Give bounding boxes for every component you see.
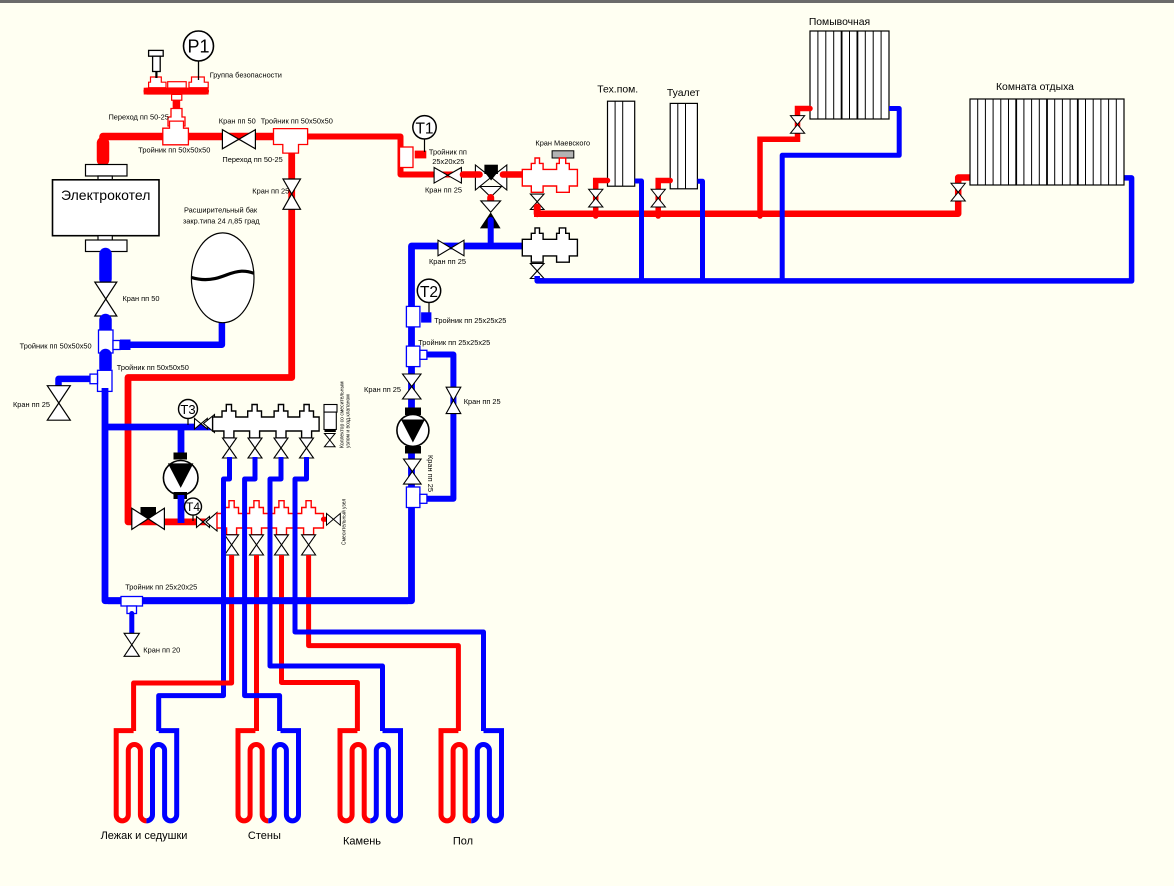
supply collector (red manifold) (217, 501, 323, 535)
svg-text:Кран пп 25: Кран пп 25 (429, 257, 466, 266)
valve on Туалет feed (651, 189, 665, 207)
svg-text:Кран пп 50: Кран пп 50 (219, 117, 256, 126)
svg-text:P1: P1 (187, 37, 209, 57)
wire: blue stub to drain valve Кран пп 20 (129, 614, 134, 638)
svg-text:Тройник пп 50х50х50: Тройник пп 50х50х50 (138, 146, 210, 155)
wire: red stub below three-way valve (487, 198, 494, 207)
safety relief valve symbol top (149, 50, 164, 78)
collector outlet valve 2 (248, 438, 262, 458)
svg-text:Пол: Пол (453, 836, 473, 848)
svg-text:Расширительный бак: Расширительный бак (184, 206, 258, 215)
wire: blue floor loop return 4 (295, 457, 484, 731)
wire: blue return Тех.пом. (635, 181, 642, 281)
valve Кран пп 25 (before pump) (403, 374, 422, 399)
wire: blue return main overlay (bottom run) (108, 597, 408, 604)
safety group bottom collar (172, 94, 182, 100)
supply collector outlet valve 2 (250, 535, 264, 555)
collector outlet valve 4 (300, 438, 314, 458)
wire: red stub from valve to main (534, 207, 541, 214)
wire: red feed Туалет (658, 181, 670, 217)
valve on Помывочная feed (790, 116, 804, 134)
wire: red stub left of three-way valve (463, 171, 480, 178)
floor loop 1 supply coil (Лежак и седушки) (116, 731, 146, 821)
svg-text:Т1: Т1 (415, 121, 433, 138)
radiator Тех.пом. (608, 101, 635, 186)
wire: blue floor loop return 2 (245, 457, 280, 731)
svg-text:Т2: Т2 (420, 284, 438, 301)
svg-text:Т4: Т4 (186, 500, 200, 514)
wire: blue branch to drain valve (59, 379, 97, 392)
tee Тройник пп 50х50х50 (left branch) (90, 370, 112, 391)
wire: blue feed to floor-collector (105, 424, 212, 431)
svg-text:Тройник пп: Тройник пп (429, 148, 467, 157)
safety group manifold bar (144, 88, 209, 95)
floor loop 2 return coil (268, 731, 298, 821)
circulation pump (floor circuit) (163, 453, 198, 500)
wire: blue stub below check valve (488, 220, 494, 245)
floor loop 4 return coil (471, 731, 501, 821)
wire: blue floor loop return 1 (159, 457, 230, 731)
svg-text:25х20х25: 25х20х25 (432, 157, 464, 166)
floor loop 2 supply coil (Стены) (238, 731, 268, 821)
valve below return assembly (530, 264, 544, 279)
air vent assembly Кран Маевского (supply) (522, 151, 577, 193)
radiator Помывочная (810, 31, 889, 119)
supply collector outlet valve 3 (275, 535, 289, 555)
valve Кран пп 25 (on red riser) (283, 179, 301, 209)
supply collector outlet valve 1 (225, 535, 239, 555)
svg-text:Тройник пп 50х50х50: Тройник пп 50х50х50 (20, 342, 92, 351)
collector outlet valve 3 (274, 438, 288, 458)
svg-text:Туалет: Туалет (667, 88, 700, 99)
wire: blue return Туалет (697, 181, 702, 281)
wire: red main tee to T1 elbow (25mm) (288, 137, 470, 175)
svg-text:Комната отдыха: Комната отдыха (996, 82, 1074, 93)
tee Тройник пп 25х25х25 (second) (406, 346, 427, 367)
safety group middle fitting bump (168, 82, 187, 88)
valve below supply assembly (530, 194, 544, 209)
svg-text:Кран Маевского: Кран Маевского (535, 139, 590, 148)
electric boiler Электрокотел (53, 180, 160, 236)
floor loop 3 return coil (370, 731, 400, 821)
circulation pump (radiator circuit) (397, 408, 429, 454)
valve on Комната отдыха feed (951, 183, 965, 201)
wire: blue pump outlet to mixing point (178, 495, 185, 523)
valve Кран пп 25 (radiator supply) (434, 168, 461, 184)
svg-text:Тройник пп 25х25х25: Тройник пп 25х25х25 (434, 316, 506, 325)
wire: blue return capsule below boiler (99, 254, 112, 279)
tee (bypass bottom) (406, 487, 427, 508)
return assembly (black) (522, 228, 577, 262)
wire: blue return Помывочная (782, 109, 899, 281)
svg-text:закр.типа 24 л,85 град: закр.типа 24 л,85 град (183, 217, 260, 226)
wire: red riser down from tee through mixing circuit (128, 150, 292, 522)
wire: red stub safety-group to tee (173, 92, 181, 132)
return collector (black manifold) (213, 405, 320, 439)
svg-text:узлом и возд.клапаном: узлом и возд.клапаном (346, 394, 352, 448)
valve Кран пп 50 (top main) (222, 130, 255, 149)
tee Тройник пп 50х50х50 (under safety group) (163, 121, 189, 145)
thermometer T4 (185, 498, 202, 521)
boiler top flange (86, 165, 128, 181)
thermometer T1 (413, 116, 436, 152)
thermometer T2 (417, 279, 440, 313)
wire: blue capsule between tees (99, 355, 112, 368)
wire: red stub right of three-way valve (503, 171, 523, 178)
wire: red floor loop feed 2 (254, 555, 259, 731)
three-way valve servo head (484, 165, 498, 181)
wire: blue bypass branch (419, 355, 453, 499)
safety group air-vent bump (right) (189, 77, 208, 88)
svg-text:Переход пп 50-25: Переход пп 50-25 (222, 155, 282, 164)
svg-text:Камень: Камень (343, 836, 381, 848)
tee Тройник пп 25х20х25 (at T1) (400, 147, 427, 168)
svg-text:Тройник пп 25х20х25: Тройник пп 25х20х25 (125, 583, 197, 592)
check valve (bypass) (480, 201, 501, 229)
svg-text:Кран пп 25: Кран пп 25 (426, 455, 435, 492)
valve at collector inlet (195, 415, 215, 433)
svg-text:Кран пп 25: Кран пп 25 (425, 186, 462, 195)
valve Кран пп 25 (return main) (438, 240, 464, 256)
svg-text:Тройник пп 50х50х50: Тройник пп 50х50х50 (117, 363, 189, 372)
svg-text:Стены: Стены (248, 830, 281, 842)
wire: red supply capsule above boiler (97, 143, 110, 160)
svg-text:Электрокотел: Электрокотел (61, 187, 150, 203)
svg-text:Кран пп 25: Кран пп 25 (13, 400, 50, 409)
tee Тройник пп 50х50х50 (to tank) (99, 330, 131, 353)
tee Тройник пп 25х20х25 (bottom left) (121, 597, 143, 614)
svg-text:Смесительный узел: Смесительный узел (341, 499, 348, 545)
wire: red floor loop feed 4 (309, 555, 459, 731)
wire: blue drop to pump (178, 427, 185, 456)
supply collector end valve (323, 514, 340, 526)
three-way mixing valve (132, 507, 165, 529)
three-way valve with servo (radiator circuit) (475, 165, 506, 197)
valve Кран пп 20 (124, 633, 139, 656)
valve Кран пп 25 (left drain) (47, 386, 70, 421)
svg-text:Кран пп 20: Кран пп 20 (143, 646, 180, 655)
thermometer T3 (179, 400, 198, 426)
radiator Туалет (670, 103, 697, 188)
svg-text:Кран пп 25: Кран пп 25 (252, 187, 289, 196)
safety group relief valve body (left bump) (149, 77, 166, 88)
svg-text:Лежак и седушки: Лежак и седушки (101, 830, 188, 842)
wire: blue floor loop return 3 (270, 457, 383, 731)
label collector rotated (340, 381, 352, 448)
reducer Переход пп 50-25 (below safety group) (168, 109, 185, 127)
collector end fitting with air vent (324, 405, 337, 447)
wire: red supply main to radiators (534, 178, 970, 214)
valve on Тех.пом. feed (589, 189, 603, 207)
svg-text:Тех.пом.: Тех.пом. (597, 85, 638, 96)
radiator Комната отдыха (970, 99, 1124, 185)
label Тройник пп 25х20х25 (T1) (429, 148, 467, 167)
pressure gauge P1 (184, 31, 214, 80)
valve Кран пп 25 (bypass) (446, 387, 461, 413)
wire: blue return main to radiators (537, 178, 1131, 281)
top window border line (0, 0, 1174, 3)
wire: long blue return main left vertical and bottom run (105, 246, 522, 601)
valve Кран пп 25 (after pump) (404, 459, 422, 484)
floor loop 3 supply coil (Камень) (340, 731, 370, 821)
valve at supply collector inlet (197, 513, 218, 532)
wire: blue capsule below valve (99, 320, 112, 331)
wire: red feed Тех.пом. (596, 181, 608, 217)
floor loop 4 supply coil (Пол) (441, 731, 471, 821)
valve Кран пп 50 (boiler return) (95, 282, 117, 316)
svg-text:Т3: Т3 (180, 402, 195, 417)
tee Тройник пп 25х25х25 (at T2) (406, 306, 431, 327)
svg-text:Переход пп 50-25: Переход пп 50-25 (109, 113, 169, 122)
svg-text:Кран пп 25: Кран пп 25 (464, 397, 501, 406)
tee with reducer Переход пп 50-25 (right) (274, 129, 308, 154)
wire: red floor loop feed 1 (134, 555, 232, 731)
wire: blue branch to expansion tank (126, 318, 222, 345)
wire: red feed Помывочная (760, 109, 810, 217)
svg-text:Группа безопасности: Группа безопасности (210, 71, 282, 80)
supply collector outlet valve 4 (302, 535, 316, 555)
wire: red floor loop feed 3 (282, 555, 358, 731)
floor loop 1 return coil (146, 731, 176, 821)
svg-text:Помывочная: Помывочная (809, 17, 870, 28)
boiler bottom flange (86, 236, 128, 252)
svg-text:Кран пп 50: Кран пп 50 (123, 294, 160, 303)
svg-text:Кран пп 25: Кран пп 25 (364, 385, 401, 394)
svg-text:Тройник пп 25х25х25: Тройник пп 25х25х25 (418, 338, 490, 347)
expansion tank (191, 233, 254, 323)
collector outlet valve 1 (223, 438, 237, 458)
svg-text:Тройник пп 50х50х50: Тройник пп 50х50х50 (261, 117, 333, 126)
wire: red supply pipe boiler top to tee (50mm) (103, 137, 292, 161)
